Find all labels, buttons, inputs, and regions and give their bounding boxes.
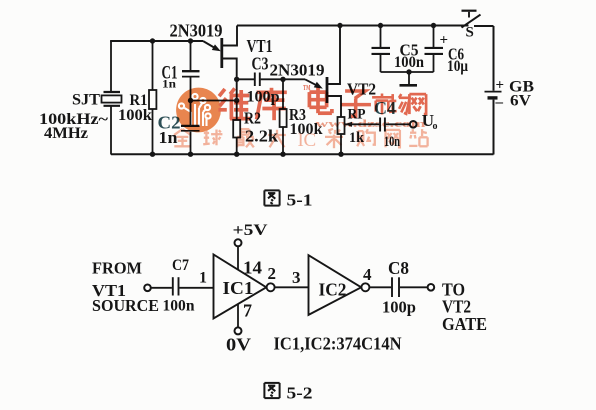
- wire left vertical bottom (crystal to bottom rail): [110, 106, 112, 155]
- svg-text:14: 14: [243, 258, 262, 278]
- junction node C1/C2: [188, 98, 193, 103]
- IC2 output bubble: [361, 283, 369, 291]
- IC1 output bubble: [267, 283, 275, 291]
- junction R3 top: [280, 77, 285, 82]
- svg-text:1n: 1n: [162, 77, 176, 91]
- watermark char 维: [218, 88, 250, 119]
- ground stub vertical: [408, 72, 410, 84]
- ground bar: [400, 84, 418, 87]
- junction ground stub: [406, 69, 411, 74]
- wire node C1C2 to R2/emitter column: [191, 100, 237, 102]
- caption glyph tu (5-1): [264, 190, 279, 205]
- resistor R2 2.2k: [233, 120, 240, 138]
- capacitor C5 100n: [380, 26, 382, 48]
- caption glyph tu (5-2): [264, 383, 279, 398]
- svg-text:IC1: IC1: [223, 278, 254, 298]
- VT1 base bar: [220, 38, 223, 68]
- junction C1 top on base rail: [188, 38, 193, 43]
- +5V terminal circle: [235, 239, 242, 246]
- capacitor C4 10n: [379, 118, 381, 132]
- svg-text:4: 4: [363, 265, 372, 284]
- svg-text:100p: 100p: [382, 298, 416, 317]
- IC1 triangle: [214, 255, 267, 319]
- svg-text:C7: C7: [172, 257, 189, 274]
- watermark char 球: [203, 130, 222, 146]
- input terminal circle: [144, 285, 151, 292]
- svg-text:C3: C3: [252, 54, 269, 74]
- watermark char 网: [386, 130, 400, 147]
- wire input to C7: [151, 287, 172, 289]
- switch fixed contact bar: [462, 10, 477, 12]
- watermark char 网: [409, 94, 426, 114]
- svg-text:2: 2: [268, 264, 277, 283]
- wire battery to bottom rail: [493, 100, 495, 155]
- RP wiper arrow: [345, 122, 352, 127]
- svg-text:10μ: 10μ: [447, 58, 468, 75]
- junction C2 bottom on supply rail: [188, 152, 193, 157]
- svg-text:FROM: FROM: [92, 258, 142, 277]
- watermark char 子: [341, 91, 371, 116]
- IC1 pin7 lead: [237, 304, 239, 327]
- crystal SJT: [104, 91, 121, 93]
- svg-text:1n: 1n: [159, 128, 179, 147]
- junction VT2 collector on top rail: [337, 23, 342, 28]
- watermark char 电: [309, 88, 332, 114]
- VT2 arrow: [314, 82, 323, 89]
- svg-text:100n: 100n: [394, 54, 424, 71]
- watermark char 购: [357, 129, 375, 146]
- capacitor C1 1n: [190, 41, 192, 70]
- svg-text:1: 1: [199, 270, 207, 287]
- output terminal circle: [410, 121, 417, 128]
- capacitor C3 100p: [237, 78, 254, 80]
- svg-text:5-2: 5-2: [287, 383, 313, 402]
- wire left vertical top (crystal to top rail): [110, 41, 112, 92]
- capacitor C6 10u electrolytic: [433, 26, 435, 48]
- watermark char 库: [257, 88, 287, 120]
- top supply rail: [237, 25, 469, 27]
- svg-text:IC1,IC2:374C14N: IC1,IC2:374C14N: [274, 334, 402, 354]
- junction VT1 emitter / C3 wire: [234, 77, 239, 82]
- svg-text:7: 7: [243, 301, 252, 321]
- junction emitter column / C1C2 wire: [234, 98, 239, 103]
- VT1 collector lead: [222, 26, 237, 46]
- VT1 arrow: [212, 44, 221, 51]
- svg-text:100k: 100k: [118, 107, 152, 124]
- watermark char 全: [174, 129, 191, 146]
- watermark char 采: [325, 129, 343, 148]
- watermark char 大: [268, 130, 286, 148]
- RP wiper wire to C4: [345, 123, 379, 125]
- wire C8 to output terminal: [400, 286, 428, 288]
- svg-text:2N3019: 2N3019: [170, 20, 223, 40]
- switch contact stub: [468, 12, 470, 18]
- potentiometer RP 1k: [338, 117, 345, 134]
- junction R1 top on base rail: [150, 38, 155, 43]
- svg-text:100n: 100n: [163, 298, 195, 315]
- junction C5 on top rail: [378, 23, 383, 28]
- output terminal circle (5-2): [428, 284, 435, 291]
- svg-text:–: –: [495, 95, 504, 111]
- svg-text:C: C: [304, 130, 317, 151]
- svg-text:TM: TM: [303, 84, 311, 92]
- watermark logo circle: [176, 88, 221, 133]
- capacitor C7 100n: [172, 277, 174, 295]
- svg-text:S: S: [466, 25, 474, 41]
- wire C7 to IC1 pin1: [179, 287, 213, 289]
- svg-text:2N3019: 2N3019: [270, 61, 325, 80]
- svg-text:+5V: +5V: [233, 222, 269, 239]
- watermark char 市: [372, 94, 392, 115]
- VT2 collector lead up to top rail: [327, 26, 340, 85]
- VT2 base bar: [326, 77, 329, 103]
- VT1 emitter lead down to R2: [222, 59, 237, 121]
- watermark char 场: [389, 94, 410, 114]
- wire IC2 to C8: [370, 286, 392, 288]
- svg-text:0V: 0V: [226, 335, 251, 355]
- svg-text:5-1: 5-1: [287, 191, 313, 210]
- junction RP bottom on supply rail: [338, 152, 343, 157]
- svg-text:GATE: GATE: [442, 314, 487, 334]
- IC2 triangle: [309, 255, 362, 315]
- svg-text:4MHz: 4MHz: [44, 125, 88, 142]
- svg-text:SJT: SJT: [72, 91, 100, 108]
- IC1 pin14 lead: [237, 246, 239, 269]
- battery minus plate: [488, 96, 498, 99]
- VT2 base lead diagonal: [305, 79, 320, 87]
- resistor R3 100k: [282, 79, 284, 109]
- switch lever: [462, 15, 481, 28]
- svg-text:IC2: IC2: [319, 280, 347, 300]
- junction R1 bottom on supply rail: [150, 152, 155, 157]
- svg-text:SOURCE: SOURCE: [92, 296, 159, 315]
- capacitor C2 1n: [190, 101, 192, 126]
- svg-text:o: o: [433, 121, 438, 132]
- watermark char 站: [409, 129, 427, 146]
- VT1 base lead diagonal: [203, 41, 218, 50]
- wire VT1 base rail y=41: [110, 40, 203, 42]
- svg-text:+: +: [496, 78, 505, 94]
- watermark char 最: [236, 129, 254, 147]
- capacitor C8 100p: [391, 277, 393, 297]
- svg-text:6V: 6V: [510, 93, 531, 110]
- resistor R1 100k: [152, 41, 154, 90]
- wire bottom supply rail: [111, 153, 494, 155]
- svg-text:3: 3: [292, 268, 301, 287]
- junction C6 on top rail: [431, 23, 436, 28]
- battery plus plate: [485, 91, 502, 93]
- svg-text:+: +: [440, 33, 449, 49]
- wire IC1 to IC2: [275, 286, 309, 288]
- junction R2 bottom on supply rail: [234, 152, 239, 157]
- wire right vertical to battery: [493, 26, 495, 91]
- VT2 emitter lead down to RP: [327, 96, 341, 117]
- 0V terminal circle: [235, 327, 242, 334]
- wire C5/C6 bottoms + ground stub: [381, 71, 434, 73]
- wire switch to right corner: [474, 25, 494, 27]
- svg-text:C8: C8: [388, 258, 409, 278]
- junction R3 bottom on supply rail: [280, 152, 285, 157]
